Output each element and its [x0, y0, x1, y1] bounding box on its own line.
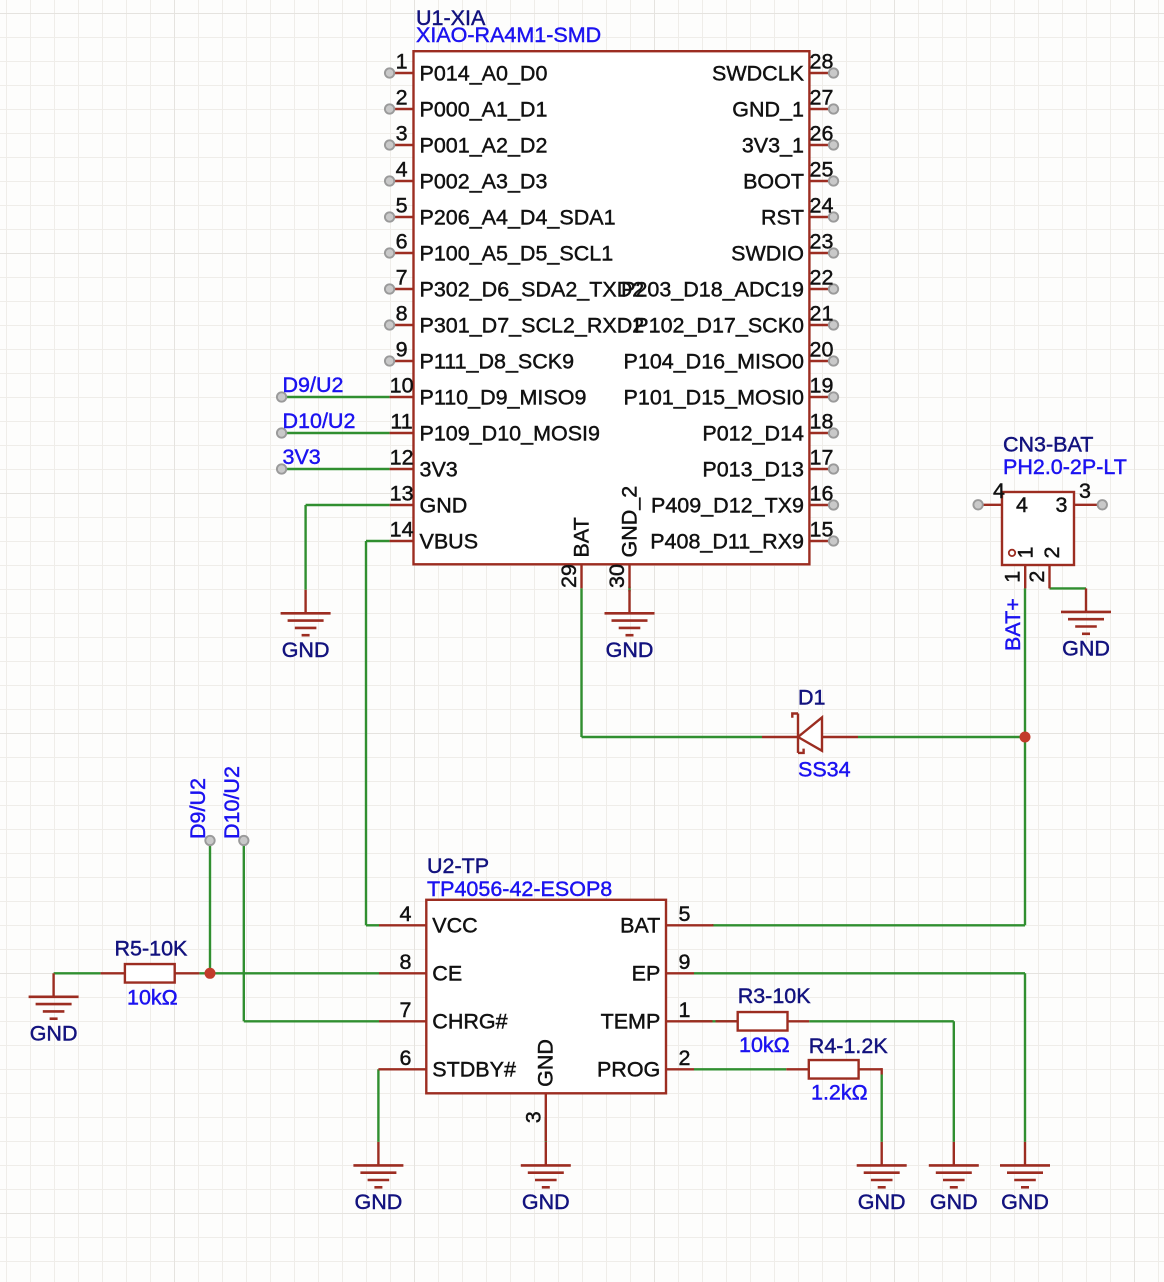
- IC U2 TP4056-42-ESOP8 body: [426, 900, 666, 1094]
- wire D10/U2 to U2 CHRG#: [244, 841, 379, 1022]
- svg-text:3: 3: [396, 122, 408, 146]
- CN3 pin 1: [1001, 547, 1038, 589]
- wire U2 BAT pin5 to BAT+ node: [712, 924, 1025, 926]
- U1 pin 22 P203_D18_ADC19: [621, 266, 838, 302]
- U2 designator label: [427, 854, 489, 878]
- wire pin10 D9/U2 stub: [282, 396, 390, 398]
- resistor R4: [786, 1060, 881, 1079]
- wire U1 BAT pin29 to D1 anode: [582, 588, 763, 737]
- svg-text:SWDIO: SWDIO: [731, 241, 804, 265]
- svg-text:10kΩ: 10kΩ: [127, 986, 178, 1010]
- svg-text:CN3-BAT: CN3-BAT: [1003, 433, 1093, 457]
- svg-text:28: 28: [810, 50, 834, 74]
- svg-text:7: 7: [396, 266, 408, 290]
- U1 pin 27 GND_1: [732, 86, 838, 122]
- svg-text:29: 29: [557, 564, 581, 588]
- svg-text:2: 2: [1040, 547, 1064, 559]
- svg-text:GND_1: GND_1: [732, 97, 804, 121]
- U2 pin 8 CE: [379, 950, 462, 986]
- U1 pin 6 P100_A5_D5_SCL1: [385, 230, 613, 266]
- svg-text:P408_D11_RX9: P408_D11_RX9: [650, 529, 804, 553]
- svg-text:CE: CE: [432, 962, 462, 986]
- U2 pin 3 GND: [521, 1039, 557, 1141]
- CN3 pin 2: [1025, 547, 1064, 589]
- wire D1 cathode to BAT+ node: [858, 736, 1025, 738]
- svg-text:4: 4: [993, 479, 1005, 503]
- R4 value label: [811, 1081, 868, 1105]
- U1 value label: [416, 23, 601, 47]
- R4 designator label: [809, 1034, 889, 1058]
- net label D9/U2 (U1 pin10): [277, 373, 344, 402]
- wire U2 PROG to R4: [694, 1068, 786, 1070]
- svg-text:2: 2: [679, 1046, 691, 1070]
- U2 pin 4 VCC: [379, 902, 478, 938]
- wire CE net (R5 to U2 CE): [199, 972, 379, 974]
- svg-text:8: 8: [396, 302, 408, 326]
- svg-text:P013_D13: P013_D13: [702, 457, 804, 481]
- U1 pin 14 VBUS: [390, 518, 478, 554]
- svg-text:GND: GND: [522, 1190, 570, 1214]
- wire U1 pin13 to GND: [306, 505, 390, 590]
- svg-text:8: 8: [400, 950, 412, 974]
- U1 pin 25 BOOT: [743, 158, 838, 194]
- svg-text:P301_D7_SCL2_RXD2: P301_D7_SCL2_RXD2: [420, 313, 645, 337]
- svg-text:D9/U2: D9/U2: [186, 778, 210, 839]
- svg-text:5: 5: [679, 902, 691, 926]
- wire U2 TEMP to R3: [690, 1020, 738, 1022]
- ground (U2 STDBY#): [353, 1142, 403, 1214]
- svg-text:6: 6: [396, 230, 408, 254]
- ground (R5 left): [29, 973, 79, 1045]
- svg-text:P203_D18_ADC19: P203_D18_ADC19: [621, 277, 804, 301]
- svg-text:6: 6: [400, 1046, 412, 1070]
- ground (U2 EP): [1000, 1142, 1050, 1214]
- wire pin11 D10/U2 stub: [282, 432, 390, 434]
- svg-text:P001_A2_D2: P001_A2_D2: [420, 133, 548, 157]
- resistor R5: [101, 964, 200, 983]
- svg-text:26: 26: [810, 122, 834, 146]
- svg-text:D9/U2: D9/U2: [283, 373, 344, 397]
- U2 pin 2 PROG: [597, 1046, 694, 1082]
- U1 pin 30 GND_2: [605, 486, 642, 589]
- svg-text:27: 27: [810, 86, 834, 110]
- U2 pin 9 EP: [632, 950, 694, 986]
- svg-text:1: 1: [1013, 547, 1037, 559]
- U1 pin 1 P014_A0_D0: [385, 50, 548, 86]
- svg-text:D10/U2: D10/U2: [220, 766, 244, 839]
- U2 value label: [427, 877, 612, 901]
- U1 pin 20 P104_D16_MISO0: [624, 338, 839, 374]
- svg-text:15: 15: [810, 518, 834, 542]
- svg-text:BAT+: BAT+: [1001, 598, 1025, 651]
- svg-text:EP: EP: [632, 962, 661, 986]
- svg-text:GND_2: GND_2: [618, 486, 642, 558]
- svg-text:STDBY#: STDBY#: [432, 1058, 516, 1082]
- ground (U1 pin30): [605, 590, 655, 662]
- wire U1 VBUS to U2 VCC: [366, 541, 390, 925]
- svg-text:GND: GND: [30, 1021, 78, 1045]
- wire U1 pin30 to GND flag: [628, 587, 630, 592]
- svg-text:14: 14: [390, 518, 414, 542]
- svg-text:P101_D15_MOSI0: P101_D15_MOSI0: [624, 385, 805, 409]
- junction CE/R5/D9 node: [205, 968, 216, 979]
- svg-text:21: 21: [810, 302, 834, 326]
- svg-text:TP4056-42-ESOP8: TP4056-42-ESOP8: [427, 877, 612, 901]
- svg-text:2: 2: [396, 86, 408, 110]
- wire R4 to GND: [881, 1068, 883, 1142]
- svg-text:11: 11: [390, 410, 412, 434]
- net label 3V3 (U1 pin12): [277, 445, 321, 474]
- svg-text:SWDCLK: SWDCLK: [712, 61, 805, 85]
- R3 designator label: [738, 984, 812, 1008]
- U1 pin 23 SWDIO: [731, 230, 838, 266]
- D1 designator label: [798, 686, 825, 710]
- ground (CN3 pin2): [1061, 588, 1111, 660]
- wire CN3 pin2 to GND: [1050, 587, 1087, 589]
- svg-text:16: 16: [810, 482, 834, 506]
- connector CN3 PH2.0-2P-LT body: [1002, 492, 1074, 565]
- U1 pin 13 GND: [390, 482, 468, 518]
- svg-text:4: 4: [396, 158, 408, 182]
- svg-text:GND: GND: [1062, 636, 1110, 660]
- svg-text:P102_D17_SCK0: P102_D17_SCK0: [634, 313, 804, 337]
- svg-text:13: 13: [390, 482, 414, 506]
- svg-text:D1: D1: [798, 686, 825, 710]
- D1 value label SS34: [798, 757, 851, 781]
- svg-text:9: 9: [396, 338, 408, 362]
- R5 designator label: [115, 937, 189, 961]
- svg-text:P002_A3_D3: P002_A3_D3: [420, 169, 548, 193]
- U1 pin 17 P013_D13: [702, 446, 838, 482]
- svg-text:PROG: PROG: [597, 1058, 660, 1082]
- junction BAT+ node: [1020, 732, 1031, 743]
- svg-text:GND: GND: [930, 1190, 978, 1214]
- IC U1 XIAO-RA4M1-SMD body: [414, 51, 810, 564]
- svg-text:P110_D9_MISO9: P110_D9_MISO9: [420, 385, 587, 409]
- U1 pin 11 P109_D10_MOSI9: [390, 410, 600, 446]
- U1 pin 18 P012_D14: [702, 410, 838, 446]
- svg-text:P109_D10_MOSI9: P109_D10_MOSI9: [420, 421, 600, 445]
- svg-text:BAT: BAT: [570, 517, 594, 557]
- svg-text:3V3_1: 3V3_1: [742, 133, 804, 157]
- svg-text:P206_A4_D4_SDA1: P206_A4_D4_SDA1: [420, 205, 616, 229]
- svg-text:P104_D16_MISO0: P104_D16_MISO0: [624, 349, 805, 373]
- svg-text:3V3: 3V3: [283, 445, 321, 469]
- svg-text:GND: GND: [282, 638, 330, 662]
- svg-text:1: 1: [396, 50, 408, 74]
- ground (R4): [857, 1142, 907, 1214]
- CN3 designator label: [1003, 433, 1093, 457]
- svg-text:20: 20: [810, 338, 834, 362]
- svg-text:P302_D6_SDA2_TXD2: P302_D6_SDA2_TXD2: [420, 277, 645, 301]
- U1 designator label: [416, 6, 486, 30]
- U2 pin 7 CHRG#: [379, 998, 508, 1034]
- svg-text:GND: GND: [858, 1190, 906, 1214]
- U1 pin 29 BAT: [557, 517, 594, 588]
- svg-text:XIAO-RA4M1-SMD: XIAO-RA4M1-SMD: [416, 23, 601, 47]
- svg-text:2: 2: [1025, 571, 1049, 583]
- U1 pin 15 P408_D11_RX9: [650, 518, 838, 554]
- U1 pin 9 P111_D8_SCK9: [385, 338, 574, 374]
- svg-text:30: 30: [605, 564, 629, 588]
- U1 pin 19 P101_D15_MOSI0: [624, 374, 839, 410]
- U1 pin 3 P001_A2_D2: [385, 122, 548, 158]
- svg-text:P014_A0_D0: P014_A0_D0: [420, 61, 548, 85]
- svg-text:24: 24: [810, 194, 834, 218]
- svg-text:GND: GND: [1001, 1190, 1049, 1214]
- svg-text:7: 7: [400, 998, 412, 1022]
- svg-text:10: 10: [390, 374, 414, 398]
- svg-text:23: 23: [810, 230, 834, 254]
- svg-text:D10/U2: D10/U2: [283, 409, 356, 433]
- svg-text:GND: GND: [355, 1190, 403, 1214]
- svg-text:1: 1: [679, 998, 691, 1022]
- svg-text:R5-10K: R5-10K: [115, 937, 189, 961]
- svg-text:5: 5: [396, 194, 408, 218]
- U1 pin 10 P110_D9_MISO9: [390, 374, 587, 410]
- svg-text:CHRG#: CHRG#: [432, 1010, 507, 1034]
- svg-text:GND: GND: [606, 638, 654, 662]
- U1 pin 4 P002_A3_D3: [385, 158, 548, 194]
- svg-text:TEMP: TEMP: [601, 1010, 661, 1034]
- CN3 pin 3: [1056, 479, 1107, 517]
- svg-text:10kΩ: 10kΩ: [739, 1033, 790, 1057]
- svg-text:P100_A5_D5_SCL1: P100_A5_D5_SCL1: [420, 241, 614, 265]
- svg-text:9: 9: [679, 950, 691, 974]
- net label D9/U2 (lower): [186, 778, 215, 845]
- svg-text:SS34: SS34: [798, 757, 851, 781]
- svg-text:1: 1: [1001, 571, 1025, 583]
- svg-text:P111_D8_SCK9: P111_D8_SCK9: [420, 349, 575, 373]
- svg-text:GND: GND: [420, 493, 468, 517]
- CN3 value label: [1003, 455, 1127, 479]
- R3 value label: [739, 1033, 790, 1057]
- svg-text:3V3: 3V3: [420, 457, 458, 481]
- svg-text:PH2.0-2P-LT: PH2.0-2P-LT: [1003, 455, 1127, 479]
- U1 pin 2 P000_A1_D1: [385, 86, 548, 122]
- net label D10/U2 (lower): [220, 766, 249, 845]
- svg-text:12: 12: [390, 446, 414, 470]
- U2 pin 5 BAT: [620, 902, 713, 938]
- svg-text:BAT: BAT: [620, 914, 660, 938]
- wire U2 EP to GND: [694, 973, 1025, 1142]
- R5 value label: [127, 986, 178, 1010]
- svg-text:25: 25: [810, 158, 834, 182]
- U2 pin 6 STDBY#: [378, 1046, 516, 1082]
- svg-text:3: 3: [521, 1111, 545, 1123]
- ground (U1 pin13): [281, 590, 331, 662]
- U1 pin 5 P206_A4_D4_SDA1: [385, 194, 616, 230]
- diode D1 (schottky SS34): [762, 714, 858, 753]
- net label D10/U2 (U1 pin11): [277, 409, 356, 438]
- svg-text:VCC: VCC: [432, 914, 477, 938]
- U1 pin 7 P302_D6_SDA2_TXD2: [385, 266, 644, 302]
- U1 pin 16 P409_D12_TX9: [651, 482, 838, 518]
- svg-text:17: 17: [810, 446, 834, 470]
- svg-text:P000_A1_D1: P000_A1_D1: [420, 97, 548, 121]
- wire R3 to GND: [809, 1021, 954, 1142]
- svg-text:18: 18: [810, 410, 834, 434]
- net label BAT+: [1001, 598, 1025, 651]
- U1 pin 21 P102_D17_SCK0: [634, 302, 838, 338]
- wire U2 GND pin3 to GND flag: [545, 1117, 547, 1142]
- wire pin12 3V3 stub: [282, 468, 390, 470]
- CN3 pin 4: [973, 479, 1028, 517]
- ground (R3): [929, 1142, 979, 1214]
- wire GND to R5: [54, 972, 101, 974]
- svg-text:P012_D14: P012_D14: [702, 421, 804, 445]
- svg-text:3: 3: [1056, 493, 1068, 517]
- svg-text:GND: GND: [534, 1039, 558, 1087]
- wire D9/U2 to CE junction: [209, 841, 211, 974]
- svg-text:R3-10K: R3-10K: [738, 984, 812, 1008]
- svg-text:P409_D12_TX9: P409_D12_TX9: [651, 493, 804, 517]
- svg-text:4: 4: [1016, 493, 1028, 517]
- svg-text:U2-TP: U2-TP: [427, 854, 489, 878]
- svg-text:1.2kΩ: 1.2kΩ: [811, 1081, 868, 1105]
- ground (U2 pin3): [521, 1142, 571, 1214]
- U1 pin 28 SWDCLK: [712, 50, 838, 86]
- svg-text:VBUS: VBUS: [420, 529, 479, 553]
- svg-text:19: 19: [810, 374, 834, 398]
- U1 pin 26 3V3_1: [742, 122, 838, 158]
- svg-text:BOOT: BOOT: [743, 169, 804, 193]
- wire CN3 pin1 BAT+ vertical: [1024, 588, 1026, 925]
- svg-text:3: 3: [1079, 479, 1091, 503]
- U1 pin 24 RST: [761, 194, 838, 230]
- U2 pin 1 TEMP: [601, 998, 713, 1034]
- resistor R3: [716, 1012, 810, 1031]
- wire U2 STDBY# to GND: [377, 1069, 379, 1142]
- svg-text:RST: RST: [761, 205, 804, 229]
- svg-text:4: 4: [400, 902, 412, 926]
- U1 pin 8 P301_D7_SCL2_RXD2: [385, 302, 644, 338]
- svg-text:R4-1.2K: R4-1.2K: [809, 1034, 889, 1058]
- svg-text:22: 22: [810, 266, 834, 290]
- U1 pin 12 3V3: [390, 446, 458, 482]
